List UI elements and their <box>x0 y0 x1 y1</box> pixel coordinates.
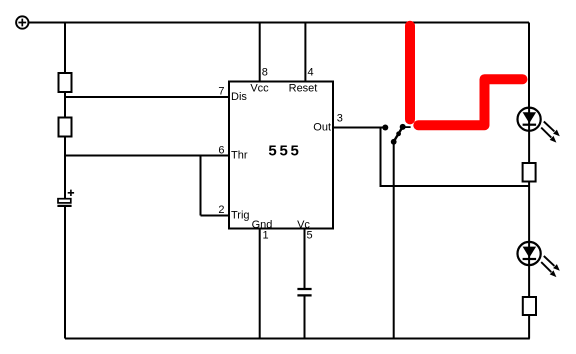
wire right rail to LED1 <box>528 23 530 108</box>
svg-text:Dis: Dis <box>231 91 247 103</box>
wire left rail segment 4 <box>64 207 66 339</box>
wire Vc pin5 lower <box>304 295 306 338</box>
wire left rail segment 1 <box>64 23 66 74</box>
switch S1 lever <box>393 127 403 143</box>
resistor R2 <box>59 118 72 137</box>
svg-text:2: 2 <box>218 204 224 216</box>
red annotation stroke L-shape <box>418 79 522 125</box>
svg-text:1: 1 <box>263 229 269 241</box>
wire switch contact stub <box>403 126 411 128</box>
op-amp U1 555 IC body <box>229 82 333 229</box>
LED D2 emission arrows <box>544 256 555 266</box>
svg-text:Thr: Thr <box>231 149 248 161</box>
wire Out down and across <box>381 128 530 187</box>
wire Trig pin2 <box>201 215 230 217</box>
capacitor C1 polarized <box>57 190 74 206</box>
svg-text:Vcc: Vcc <box>250 83 269 95</box>
power terminal + <box>16 16 28 28</box>
wire Thr pin6 <box>65 155 229 157</box>
svg-text:555: 555 <box>268 142 301 159</box>
wire R4 to bottom rail <box>528 315 530 339</box>
red annotation stroke vertical <box>405 26 415 120</box>
wire Out pin3 <box>333 127 387 129</box>
capacitor C2 <box>297 289 311 295</box>
LED D1 <box>518 108 541 131</box>
resistor R3 <box>523 163 536 182</box>
wire Thr-Trig link <box>200 156 202 216</box>
wire bottom rail <box>65 338 530 340</box>
wire LED2 to R4 <box>528 265 530 297</box>
LED D1 emission arrows <box>544 122 555 132</box>
wire LED1 to R3 <box>528 131 530 164</box>
wire left rail segment 3 <box>64 137 66 199</box>
svg-text:Out: Out <box>313 122 331 134</box>
svg-text:Vc: Vc <box>297 219 310 231</box>
node Out junction <box>382 125 388 131</box>
wire Vc pin5 upper <box>304 229 306 290</box>
resistor R1 <box>59 73 72 92</box>
svg-text:8: 8 <box>262 66 268 78</box>
svg-text:Gnd: Gnd <box>252 219 273 231</box>
svg-text:4: 4 <box>308 66 314 78</box>
wire Reset pin4 <box>304 23 306 82</box>
svg-text:Trig: Trig <box>231 209 250 221</box>
wire top rail <box>29 22 530 24</box>
wire R3 to LED2 <box>528 182 530 243</box>
wire Dis pin7 <box>65 96 229 98</box>
svg-text:7: 7 <box>218 85 224 97</box>
wire Vcc pin8 <box>259 23 261 82</box>
LED D2 <box>518 242 541 265</box>
wire Gnd pin1 <box>259 229 261 339</box>
svg-text:3: 3 <box>337 113 343 125</box>
switch S1 pole <box>391 139 397 145</box>
svg-text:Reset: Reset <box>289 83 318 95</box>
switch S1 contact <box>400 124 406 130</box>
svg-text:5: 5 <box>307 229 313 241</box>
resistor R4 <box>523 297 536 315</box>
wire switch pole down <box>393 142 395 339</box>
wire left rail segment 2 <box>64 92 66 118</box>
svg-text:6: 6 <box>218 145 224 157</box>
